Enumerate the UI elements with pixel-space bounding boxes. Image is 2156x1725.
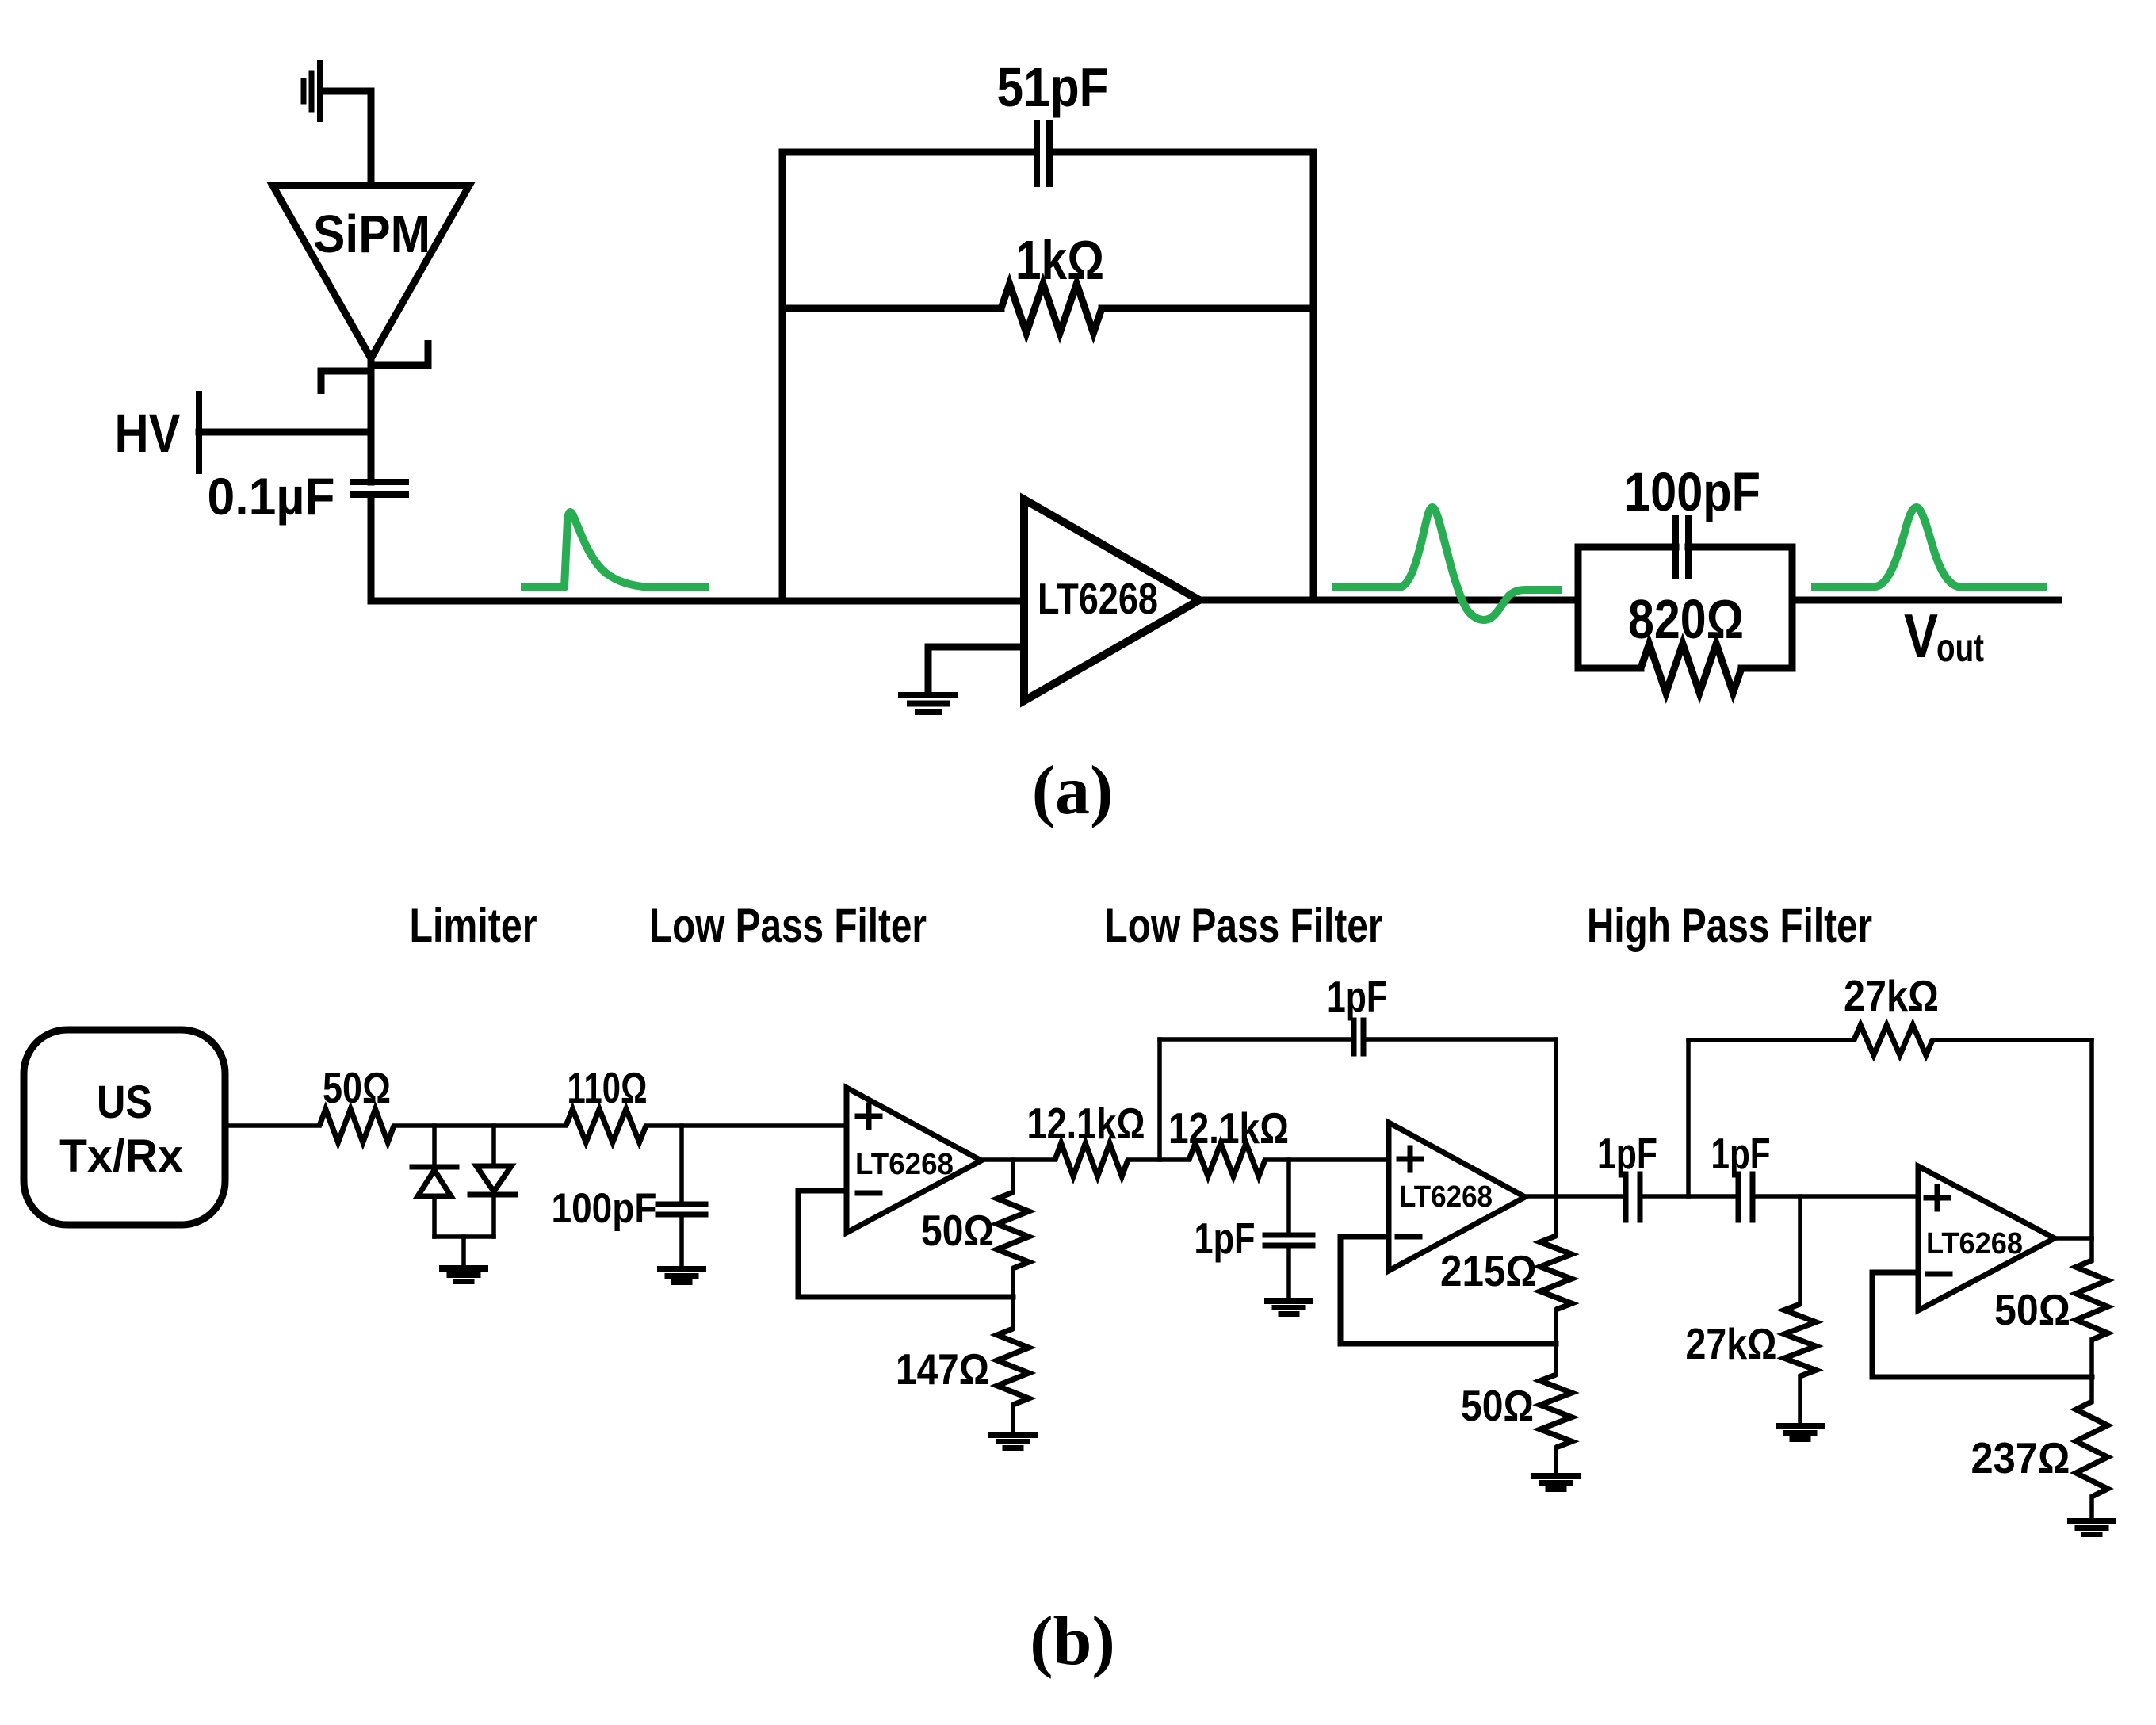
resistor R5 50Ohm: [997, 1192, 1029, 1268]
ground below R6: [992, 1432, 1034, 1438]
resistor R4 110Ohm: [566, 1109, 646, 1142]
resistor R12 27kOhm to ground: [1798, 1196, 1802, 1304]
RC network box left side: [1575, 547, 1582, 668]
wire 1pF loop right vertical: [1554, 1039, 1558, 1196]
wire node to capacitor C4: [679, 1126, 684, 1202]
svg-text:out: out: [1936, 625, 1984, 670]
resistor R11 27kOhm: [1854, 1025, 1932, 1055]
op-amp U1 LT6268: [1024, 499, 1199, 701]
wire 1k branch right: [1102, 305, 1313, 312]
svg-text:12.1kΩ: 12.1kΩ: [1168, 1103, 1289, 1153]
wire feedback left vertical: [779, 152, 786, 601]
wire op-amp U3 output: [1525, 1194, 1626, 1199]
wire C7 to C8: [1640, 1194, 1738, 1199]
svg-text:50Ω: 50Ω: [323, 1063, 391, 1112]
wire op-amp U4 output: [2055, 1236, 2092, 1241]
ground below R12: [1779, 1423, 1822, 1429]
wire op-amp U2 output: [981, 1157, 1055, 1162]
wire R3 to limiter: [394, 1123, 566, 1128]
ground below limiter: [442, 1265, 485, 1272]
wire C8 to op-amp U4: [1753, 1194, 1918, 1199]
svg-text:1pF: 1pF: [1195, 1214, 1256, 1263]
wire box to R3: [225, 1123, 319, 1128]
svg-text:High Pass Filter: High Pass Filter: [1587, 899, 1872, 952]
ground below R10: [1535, 1473, 1577, 1479]
wire feedback op-amp U4: [1872, 1272, 2092, 1377]
wire feedback op-amp U3: [1340, 1237, 1556, 1344]
green output pulse waveform: [1811, 507, 2047, 587]
wire HV to node: [199, 429, 371, 436]
svg-text:50Ω: 50Ω: [921, 1206, 994, 1255]
wire 27k loop left vertical: [1686, 1040, 1691, 1196]
svg-text:100pF: 100pF: [1624, 461, 1760, 522]
US Tx/Rx source box: [24, 1030, 225, 1225]
capacitor C2 51pF: [1034, 124, 1040, 184]
capacitor C7 1pF: [1623, 1174, 1629, 1220]
svg-text:820Ω: 820Ω: [1628, 588, 1744, 650]
wire 1pF loop top left: [1160, 1037, 1354, 1042]
diode D2 branch wire: [491, 1126, 496, 1166]
wire 27k loop top left: [1688, 1038, 1854, 1042]
ground (sideways) top-left of SiPM: [317, 63, 323, 119]
resistor R6 147Ohm: [1011, 1297, 1015, 1329]
svg-text:50Ω: 50Ω: [1461, 1381, 1534, 1430]
SiPM anode marks: [371, 340, 428, 365]
wire R10 to ground: [1554, 1448, 1558, 1474]
svg-text:SiPM: SiPM: [313, 205, 430, 264]
resistor R13 50Ohm: [2089, 1238, 2094, 1260]
wire 27k loop top right: [1932, 1038, 2092, 1042]
RC network box bottom with resistor R2 820Ohm: [1578, 665, 1641, 672]
svg-text:215Ω: 215Ω: [1440, 1246, 1537, 1295]
capacitor C4 100pF: [658, 1202, 705, 1207]
resistor R14 237Ohm: [2089, 1377, 2094, 1402]
diode D2 (down): [476, 1166, 511, 1191]
capacitor C3 100pF plates: [1672, 518, 1679, 576]
svg-text:1pF: 1pF: [1597, 1129, 1657, 1178]
wire 1pF loop left vertical: [1157, 1039, 1162, 1160]
wire R6 to ground: [1011, 1405, 1015, 1433]
svg-text:0.1µF: 0.1µF: [208, 467, 335, 526]
capacitor C1 0.1uF: [353, 479, 406, 485]
limiter bottom rail: [434, 1234, 494, 1239]
svg-text:LT6268: LT6268: [855, 1148, 954, 1181]
capacitor C8 1pF: [1736, 1174, 1741, 1220]
svg-text:US: US: [97, 1077, 152, 1128]
resistor R9 215Ohm: [1554, 1196, 1558, 1236]
diode D1 (up): [412, 1165, 457, 1170]
wire feedback top left segment: [782, 149, 1035, 156]
svg-text:V: V: [1904, 601, 1938, 671]
svg-text:1pF: 1pF: [1327, 972, 1387, 1021]
resistor R8 12.1kOhm: [1189, 1143, 1265, 1176]
svg-text:27kΩ: 27kΩ: [1844, 971, 1939, 1020]
diode D1 branch wire: [432, 1126, 437, 1167]
wire 1k branch left: [782, 305, 1001, 312]
wire 27k loop right vertical: [2089, 1040, 2094, 1238]
wire R8 to op-amp U3: [1265, 1157, 1389, 1162]
svg-text:(a): (a): [1032, 752, 1114, 829]
op-amp U2 LT6268: [847, 1088, 981, 1233]
capacitor C5 1pF: [1351, 1020, 1357, 1054]
wire feedback top right segment: [1051, 149, 1313, 156]
ground below C4: [660, 1266, 703, 1272]
svg-text:50Ω: 50Ω: [1994, 1285, 2070, 1334]
svg-text:100pF: 100pF: [552, 1185, 657, 1232]
green bipolar pulse waveform: [1332, 507, 1562, 620]
svg-text:147Ω: 147Ω: [896, 1344, 989, 1394]
op-amp U3 LT6268: [1389, 1123, 1525, 1271]
resistor R3 50Ohm: [319, 1109, 394, 1142]
svg-text:(b): (b): [1030, 1603, 1115, 1680]
svg-text:LT6268: LT6268: [1926, 1227, 2023, 1260]
wire output node to R5: [1011, 1160, 1015, 1192]
svg-text:1kΩ: 1kΩ: [1015, 229, 1104, 291]
svg-text:Limiter: Limiter: [410, 899, 537, 952]
ground below R14: [2070, 1518, 2113, 1524]
wire ground to SiPM cathode: [323, 91, 371, 186]
green input pulse waveform: [521, 512, 709, 587]
svg-text:237Ω: 237Ω: [1971, 1433, 2070, 1482]
SiPM photodiode U-SiPM: [273, 186, 469, 358]
svg-text:110Ω: 110Ω: [568, 1063, 648, 1112]
RC network box right side: [1789, 547, 1796, 668]
wire output Vout: [1792, 597, 2059, 604]
svg-text:Low Pass Filter: Low Pass Filter: [649, 899, 927, 952]
wire R14 to ground: [2089, 1497, 2094, 1520]
svg-text:12.1kΩ: 12.1kΩ: [1027, 1099, 1145, 1148]
wire C6 to ground: [1286, 1248, 1291, 1299]
svg-text:LT6268: LT6268: [1038, 574, 1158, 623]
wire ground stub to op-amp U1: [928, 647, 1024, 693]
wire R4 to op-amp U2: [646, 1123, 847, 1128]
resistor R1 1kOhm: [1001, 284, 1102, 333]
svg-text:HV: HV: [115, 403, 181, 464]
ground below C6: [1267, 1298, 1310, 1304]
svg-text:1pF: 1pF: [1711, 1129, 1771, 1178]
wire 1pF loop top right: [1363, 1037, 1556, 1042]
wire node to capacitor C6: [1286, 1160, 1291, 1233]
svg-text:Tx/Rx: Tx/Rx: [59, 1130, 183, 1182]
wire R5 to feedback node: [1011, 1268, 1015, 1297]
svg-text:27kΩ: 27kΩ: [1686, 1319, 1777, 1368]
svg-text:LT6268: LT6268: [1399, 1180, 1493, 1214]
capacitor C6 1pF: [1265, 1233, 1313, 1238]
resistor R10 50Ohm: [1554, 1344, 1558, 1375]
wire SiPM anode down to HV node: [368, 358, 375, 432]
svg-text:Low Pass Filter: Low Pass Filter: [1105, 899, 1383, 952]
wire op-amp U1 output: [1199, 597, 1578, 604]
RC network box top with capacitor C3 100pF: [1578, 544, 1676, 551]
wire R7 to R8: [1128, 1157, 1189, 1162]
ground below op-amp U1: [901, 692, 955, 698]
wire C1 to input node of op-amp U1: [371, 495, 1024, 601]
wire node to capacitor C1: [368, 432, 375, 482]
wire feedback right vertical: [1310, 152, 1317, 600]
wire rail to ground: [461, 1237, 466, 1267]
HV terminal: [196, 394, 202, 471]
op-amp U4 LT6268: [1918, 1166, 2055, 1310]
svg-text:51pF: 51pF: [997, 56, 1109, 118]
wire feedback op-amp U2: [798, 1191, 1013, 1297]
resistor R7 12.1kOhm: [1055, 1143, 1128, 1176]
wire C4 to ground: [679, 1217, 684, 1268]
